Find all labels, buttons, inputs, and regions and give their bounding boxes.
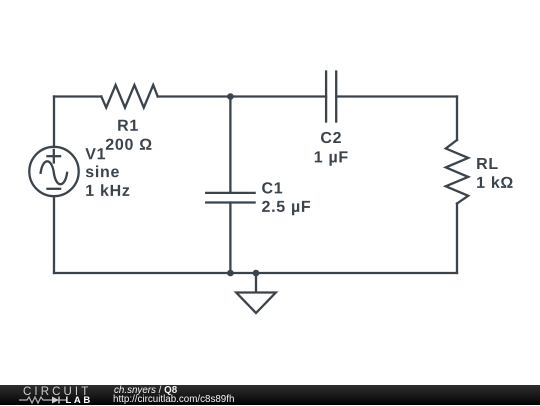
CircuitLab logo: LAB <box>66 396 93 405</box>
svg-text:C1: C1 <box>261 180 283 197</box>
wire: ground stub <box>255 273 257 291</box>
wire top-left horizontal: V1 to R1 <box>54 95 101 97</box>
wire: bottom horizontal rail <box>54 272 457 274</box>
svg-text:1 µF: 1 µF <box>314 149 349 166</box>
svg-text:R1: R1 <box>117 118 139 135</box>
capacitor C1 <box>206 193 254 203</box>
node C junction dot (ground tap) <box>253 270 260 277</box>
svg-text:1 kΩ: 1 kΩ <box>476 175 514 192</box>
wire: right vertical, corner to RL top <box>456 97 458 141</box>
svg-text:C2: C2 <box>320 130 342 147</box>
wire: left vertical, V1 top lead <box>53 97 55 147</box>
ground <box>236 293 276 314</box>
svg-text:200 Ω: 200 Ω <box>105 137 152 154</box>
node A junction dot <box>227 93 234 100</box>
wire: C1 bottom plate to bottom rail <box>229 203 231 274</box>
resistor R1 <box>101 85 157 108</box>
node B junction dot (C1 bottom) <box>227 270 234 277</box>
credit line 1: ch.snyers / Q8 <box>114 386 177 396</box>
svg-text:sine: sine <box>85 164 120 181</box>
svg-text:V1: V1 <box>85 146 106 163</box>
voltage source V1 <box>29 147 78 196</box>
wire: left vertical, V1 bottom lead <box>53 196 55 273</box>
wire: R1 to node A <box>158 95 231 97</box>
footer bar <box>0 385 540 406</box>
CircuitLab logo: resistor-diode glyph <box>19 395 67 405</box>
wire: C2 right plate to top-right corner <box>336 95 457 97</box>
credit line 2: url <box>113 395 234 405</box>
capacitor C2 <box>326 72 336 122</box>
wire: RL bottom to bottom-right corner <box>456 204 458 274</box>
wire: node A to C2 left plate <box>230 95 326 97</box>
svg-text:1 kHz: 1 kHz <box>85 183 130 200</box>
svg-text:2.5 µF: 2.5 µF <box>261 199 311 216</box>
CircuitLab logo: CIRCUIT <box>23 387 91 398</box>
wire: node A down to C1 top plate <box>229 97 231 193</box>
resistor RL <box>446 140 468 204</box>
svg-text:RL: RL <box>476 156 499 173</box>
